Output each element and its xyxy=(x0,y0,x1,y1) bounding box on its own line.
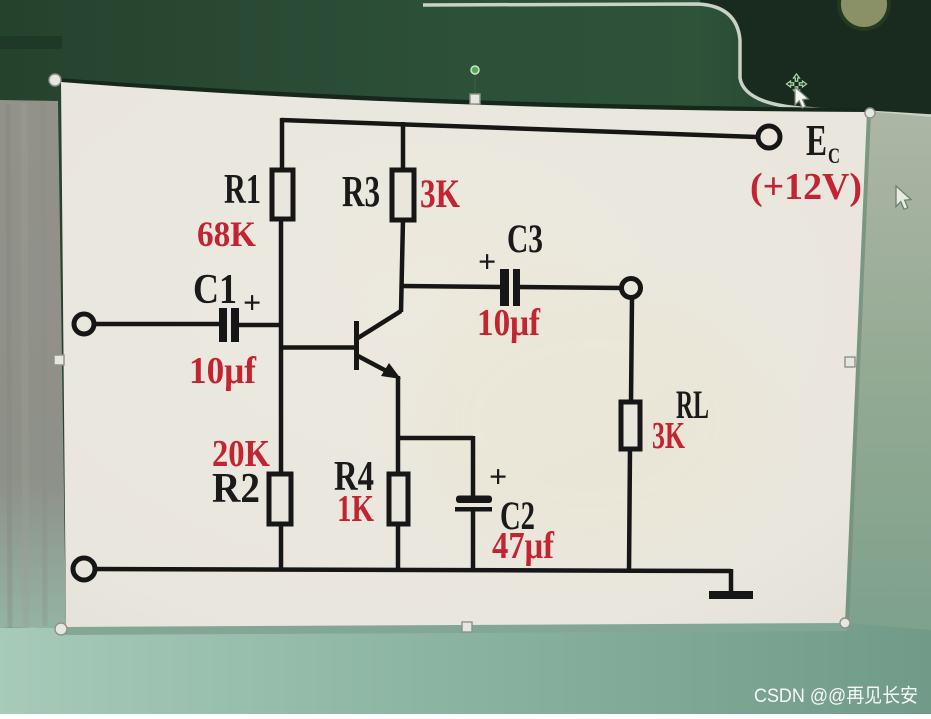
rotate handle xyxy=(471,66,479,74)
resistor RL body xyxy=(621,402,640,449)
resistor R3 body xyxy=(392,170,414,220)
svg-text:R1: R1 xyxy=(224,167,261,213)
svg-text:CSDN @@再见长安: CSDN @@再见长安 xyxy=(754,685,918,707)
wire input to C1 xyxy=(93,322,221,327)
wire R3 bottom to collector xyxy=(401,219,403,312)
page bottom shadow xyxy=(64,621,847,635)
selection handles xyxy=(49,74,875,635)
wire ground stub xyxy=(729,569,734,592)
resistor R1 body xyxy=(272,170,293,219)
svg-text:+: + xyxy=(478,243,496,279)
wire collector to C3 xyxy=(402,286,501,287)
svg-text:68K: 68K xyxy=(197,214,256,254)
svg-text:47μf: 47μf xyxy=(492,525,555,567)
capacitor C1 plates xyxy=(219,308,227,342)
ground bar xyxy=(709,591,753,599)
svg-text:10μf: 10μf xyxy=(189,350,257,392)
page (white sheet, photo-rotated quad) xyxy=(61,82,867,627)
bottom-left terminal xyxy=(73,558,95,580)
page shadow top xyxy=(57,78,869,114)
svg-text:(+12V): (+12V) xyxy=(750,166,862,208)
wire C1 to node B xyxy=(237,323,282,328)
transistor Q1 emitter diagonal xyxy=(358,356,394,375)
transistor Q1 emitter arrow head xyxy=(381,363,401,379)
transistor Q1 collector diagonal xyxy=(358,311,401,338)
svg-text:3K: 3K xyxy=(652,415,685,457)
background: very dark top-right beyond curve xyxy=(700,0,931,115)
svg-text:10μf: 10μf xyxy=(477,302,541,344)
wire emitter to C2 branch xyxy=(396,436,473,441)
wire base xyxy=(281,345,356,350)
light curve line xyxy=(423,4,931,116)
wire R3 top stub xyxy=(401,122,406,171)
wire bottom rail xyxy=(94,569,731,571)
wire top rail xyxy=(281,120,757,137)
teal bottom band xyxy=(0,623,931,714)
wire C2 top xyxy=(471,436,476,496)
subtle dark band top-left xyxy=(0,36,62,49)
wire emitter vertical xyxy=(396,376,401,475)
resistor R2 body xyxy=(269,474,291,524)
svg-text:C: C xyxy=(828,143,840,168)
svg-text:+: + xyxy=(489,458,507,494)
wire R1 top stub xyxy=(280,118,285,171)
input terminal xyxy=(74,314,94,334)
svg-text:20K: 20K xyxy=(212,433,270,475)
svg-text:+: + xyxy=(243,284,261,320)
wire R1-R2 divider vertical xyxy=(279,218,284,475)
wire output node down to RL xyxy=(631,297,632,403)
move cursor with green arrows xyxy=(787,74,807,94)
wire RL bottom xyxy=(629,448,630,571)
wire C3 to output node xyxy=(519,287,622,288)
Ec supply terminal xyxy=(758,126,780,148)
capacitor C3 plates xyxy=(500,269,509,306)
gray strip streaks xyxy=(8,104,10,628)
svg-text:C1: C1 xyxy=(193,267,237,313)
transistor Q1 base bar xyxy=(354,321,359,370)
soft shadow along page right edge xyxy=(844,111,871,624)
svg-text:C3: C3 xyxy=(507,216,543,261)
rotate handle stem xyxy=(474,74,476,94)
wire R4 bottom xyxy=(396,523,401,571)
svg-text:3K: 3K xyxy=(420,171,460,216)
svg-text:E: E xyxy=(806,116,827,165)
svg-text:R3: R3 xyxy=(342,167,380,216)
resistor R4 body xyxy=(389,474,408,524)
gray strip left of page xyxy=(0,100,66,628)
capacitor C2 plates xyxy=(456,496,492,504)
arrow cursor right xyxy=(896,186,911,209)
output terminal xyxy=(622,279,641,298)
dark olive circle top right xyxy=(839,0,889,29)
sage band right of page xyxy=(844,111,931,640)
wire R2 bottom xyxy=(279,523,284,571)
faint moire tint on page xyxy=(410,280,770,560)
wire C2 bottom xyxy=(471,510,476,571)
svg-text:1K: 1K xyxy=(337,488,374,530)
